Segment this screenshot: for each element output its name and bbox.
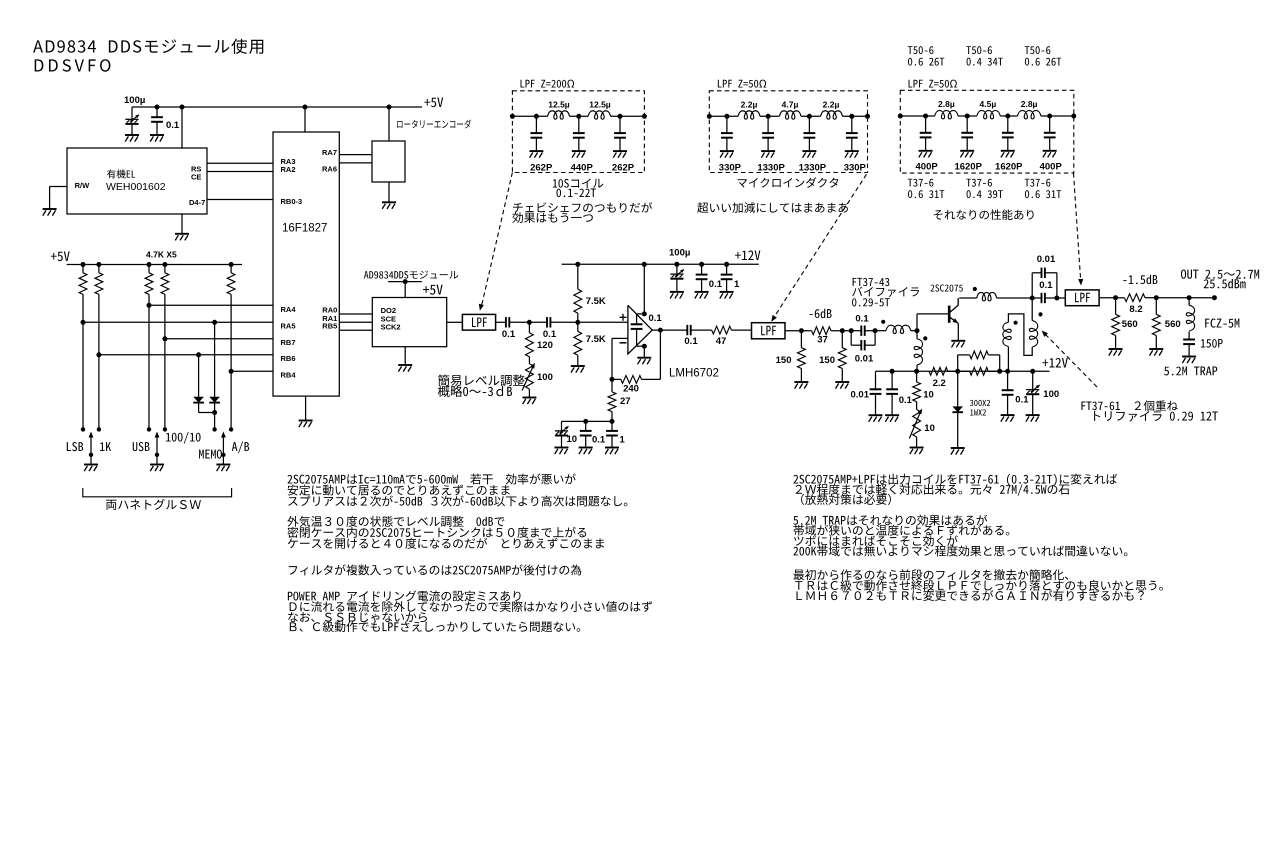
ground below R14 <box>835 381 849 383</box>
svg-text:RA5: RA5 <box>281 322 296 331</box>
capacitor C19 100u electrolytic <box>1030 369 1035 374</box>
transistor Q1 emitter <box>949 317 958 324</box>
svg-text:RB4: RB4 <box>281 371 297 380</box>
label 1K <box>100 442 111 451</box>
capacitor C8 10u electrolytic <box>561 421 563 431</box>
resistor R16 2.2 <box>929 367 948 375</box>
+5V label (switch rail) <box>51 251 70 261</box>
op-amp U1 triangle <box>628 305 652 354</box>
capacitor C3 0.1 series <box>505 317 507 327</box>
svg-text:1620P: 1620P <box>954 162 982 173</box>
svg-text:0.1: 0.1 <box>166 120 180 131</box>
capacitor 400P (filter3) <box>1047 114 1052 119</box>
wire RA7-encoder <box>339 154 372 156</box>
op-amp bypass cap 0.1 <box>636 314 638 324</box>
dashed arrow filter3 to LPF3 <box>1074 173 1081 281</box>
svg-text:RA6: RA6 <box>322 165 337 174</box>
ground below C1 <box>125 134 139 136</box>
label 25.5dBm <box>1204 279 1246 289</box>
inductor L5 2.2u <box>821 111 843 119</box>
resistor R6 120 <box>528 322 530 333</box>
label 簡易レベル調整 <box>438 374 525 386</box>
svg-text:4.7µ: 4.7µ <box>782 100 799 110</box>
node collector out <box>1030 296 1035 301</box>
wire RA0-DO2 <box>339 313 372 315</box>
comment text block left <box>287 474 575 485</box>
label 超いい加減にしてはまあまあ <box>697 202 848 213</box>
wire module out <box>447 321 463 323</box>
label バイファイラ <box>852 287 919 297</box>
variable resistor VR1 100 <box>528 357 530 364</box>
svg-text:262P: 262P <box>612 163 635 174</box>
capacitor C14 0.01 bypass loop <box>1031 273 1033 298</box>
inductor L2 12.5u <box>588 111 611 119</box>
rotary encoder label <box>397 120 471 129</box>
svg-text:0.01: 0.01 <box>851 390 870 401</box>
+12V rail (opamp) <box>562 263 759 265</box>
ground below C6 <box>695 291 709 293</box>
wire col5 down <box>230 294 232 429</box>
label A/B <box>232 441 249 453</box>
wire col2 down <box>98 294 100 429</box>
resistor R12 150 shunt <box>800 331 802 348</box>
label 2SC2075 <box>930 284 962 291</box>
+12V rail (PA) <box>876 370 1050 372</box>
svg-text:RB5: RB5 <box>322 322 337 331</box>
resistor R10 27 <box>611 379 613 392</box>
label 0.1-22T <box>557 189 596 198</box>
wire T1 to base <box>916 314 918 331</box>
svg-text:12.5µ: 12.5µ <box>589 100 611 110</box>
label トリファイラ 0.29 12T <box>1094 411 1218 422</box>
inductor L3 2.2u <box>738 111 760 119</box>
svg-text:16F1827: 16F1827 <box>282 223 327 235</box>
capacitor C12 0.1 series <box>851 330 861 332</box>
svg-text:150: 150 <box>819 355 835 366</box>
capacitor C4 0.1 series <box>529 321 547 323</box>
wire CE-RA2 <box>207 171 273 173</box>
ground below PIC <box>299 420 313 422</box>
transformer T1 secondary <box>916 331 918 339</box>
transformer T1 primary <box>875 330 886 332</box>
label FT37-61 2個重ね <box>1081 400 1177 411</box>
DDS module U3 box <box>372 298 446 347</box>
+5V stub for module <box>388 281 422 283</box>
svg-text:RB6: RB6 <box>281 354 296 363</box>
svg-text:0.1: 0.1 <box>1015 395 1029 406</box>
svg-text:100: 100 <box>537 372 553 383</box>
svg-text:1620P: 1620P <box>995 162 1023 173</box>
diode D2 <box>214 322 216 397</box>
svg-text:560: 560 <box>1165 319 1181 330</box>
capacitor 400P (filter3) <box>923 114 928 119</box>
svg-text:2.2: 2.2 <box>933 378 946 389</box>
svg-text:37: 37 <box>817 335 828 346</box>
+5V rail (switches) <box>67 264 242 266</box>
node bias T1 <box>914 369 919 374</box>
svg-text:120: 120 <box>537 340 553 351</box>
resistor R5 4.7K <box>229 262 234 267</box>
label -6dB <box>809 309 831 318</box>
label T37-6 col3 <box>1025 179 1051 187</box>
label USB <box>133 442 150 451</box>
svg-text:4.7K X5: 4.7K X5 <box>146 250 177 260</box>
svg-text:7.5K: 7.5K <box>586 296 606 307</box>
wire emitter cap bus <box>562 420 613 422</box>
ground below module <box>398 364 412 366</box>
ground below R8 <box>571 365 585 367</box>
label 両ハネトグルSW <box>106 499 201 510</box>
capacitor C1 100u electrolytic <box>131 107 133 119</box>
wire encoder to ground <box>388 182 390 202</box>
label T50-6 col3 <box>1025 46 1051 54</box>
label T37-6 col2 <box>966 179 992 187</box>
ground below R19 <box>1109 348 1123 350</box>
wire rail to LCD top <box>181 107 183 148</box>
node diode <box>955 369 960 374</box>
capacitor 1620P (filter3) <box>1005 114 1010 119</box>
ground below C7 <box>720 291 734 293</box>
capacitor C16 0.01 <box>875 371 877 389</box>
node after 8.2 <box>1154 295 1159 300</box>
wire col4 down <box>164 294 166 429</box>
ground below C9 <box>579 447 593 449</box>
LPF3 box <box>1065 290 1099 306</box>
wire LCD bottom to ground <box>181 214 183 234</box>
label AD9834DDSモジュール <box>364 271 458 279</box>
output terminal <box>1212 295 1217 300</box>
svg-text:WEH001602: WEH001602 <box>106 181 166 193</box>
dashed arrow filter2 to LPF2 <box>773 174 866 318</box>
wire RA6-encoder <box>339 162 372 164</box>
svg-text:CE: CE <box>191 172 201 181</box>
resistor R13 37 <box>812 327 831 335</box>
label LPF Z=50Ω (box2) <box>718 80 766 88</box>
wire LPF2 out <box>785 330 812 332</box>
svg-text:100µ: 100µ <box>124 95 145 106</box>
diode D3 <box>957 371 959 406</box>
ground below C10 <box>605 447 619 449</box>
svg-text:1330P: 1330P <box>757 163 785 174</box>
ground below opamp <box>637 357 651 359</box>
capacitor 1330P (filter2) <box>807 114 812 119</box>
resistor R11 47 <box>691 329 712 331</box>
resistor R3 4.7K <box>147 262 152 267</box>
label FT37-43 <box>853 278 890 286</box>
svg-text:4.5µ: 4.5µ <box>980 99 997 109</box>
ground at LCD R/W <box>43 208 57 210</box>
svg-text:1330P: 1330P <box>799 163 827 174</box>
node LPF3 in <box>1054 296 1059 301</box>
label T50-6 col1 <box>908 46 934 54</box>
wire collector <box>959 297 977 299</box>
svg-text:262P: 262P <box>530 163 553 174</box>
svg-text:0.1: 0.1 <box>855 314 869 325</box>
variable resistor VR2 10 <box>913 410 921 438</box>
svg-text:400P: 400P <box>1040 162 1063 173</box>
ground below R21 <box>1149 348 1163 350</box>
inductor L4 4.7u <box>779 111 801 119</box>
node rail to PIC <box>303 105 308 110</box>
node T1 <box>915 328 920 333</box>
capacitor C7 1 <box>724 262 729 267</box>
ground below C18 <box>1001 414 1015 416</box>
svg-text:RA7: RA7 <box>322 148 337 157</box>
label -1.5dB <box>1123 275 1157 284</box>
ground below C20 <box>1182 356 1196 358</box>
svg-text:10: 10 <box>924 423 935 434</box>
title text <box>33 39 263 54</box>
wire D4-7 to RB0-3 <box>207 199 273 201</box>
svg-text:100: 100 <box>1043 389 1059 400</box>
wire col1 down <box>82 294 84 429</box>
node rail to encoder <box>387 105 392 110</box>
node R18 join <box>997 369 1002 374</box>
rotary encoder J1 box <box>372 141 405 182</box>
svg-text:400P: 400P <box>916 162 939 173</box>
wire C4 to bias node <box>550 321 577 323</box>
node T2 bottom <box>1005 369 1010 374</box>
toggle switch SW1 LSB/1K <box>81 427 85 431</box>
svg-text:100µ: 100µ <box>669 248 690 259</box>
svg-text:440P: 440P <box>571 163 594 174</box>
svg-text:1: 1 <box>620 435 626 446</box>
resistor R20 8.2 <box>1124 294 1145 302</box>
filter1 wire <box>512 115 547 117</box>
wire module to ground <box>404 347 406 365</box>
ground below VR2 <box>910 447 924 449</box>
dashed arrow filter1 to LPF1 <box>482 173 513 307</box>
svg-text:RB7: RB7 <box>281 338 296 347</box>
svg-text:2.2µ: 2.2µ <box>823 100 840 110</box>
LCD module X1 box <box>67 148 207 214</box>
node rail opamp supply <box>642 262 647 267</box>
wire VR1 to ground <box>528 389 530 398</box>
inductor L7 4.5u <box>977 110 1000 118</box>
svg-text:0.01: 0.01 <box>1037 254 1056 265</box>
dashed arrow FT37-61 label to transformer <box>1044 333 1097 387</box>
svg-text:RA4: RA4 <box>281 305 297 314</box>
resistor R2 4.7K <box>96 262 101 267</box>
wire RB7 line <box>162 336 167 341</box>
wire to trap <box>1156 297 1214 299</box>
svg-text:8.2: 8.2 <box>1129 304 1142 315</box>
resistor R9 240 feedback <box>642 378 661 380</box>
svg-text:0.1: 0.1 <box>543 329 557 340</box>
label MEMO <box>199 450 222 459</box>
ground below LCD <box>175 233 189 235</box>
svg-text:330P: 330P <box>719 163 742 174</box>
capacitor C9 0.1 <box>583 419 588 424</box>
filter box 2 dashed <box>709 91 867 173</box>
label それなりの性能あり <box>934 209 1034 220</box>
wire emitter to ground <box>957 323 959 340</box>
capacitor C17 0.1 <box>890 369 895 374</box>
resistor R21 560 shunt <box>1155 298 1157 315</box>
resistor R14 150 shunt <box>841 331 843 348</box>
LPF1 box <box>462 314 495 330</box>
wire RB4 line <box>229 369 234 374</box>
svg-text:RA2: RA2 <box>281 165 296 174</box>
ground below Q1 emitter <box>951 340 965 342</box>
svg-text:0.1: 0.1 <box>502 329 516 340</box>
label 100/10 <box>166 432 201 444</box>
svg-text:D4-7: D4-7 <box>189 198 205 207</box>
wire RB6 line <box>96 352 101 357</box>
svg-text:7.5K: 7.5K <box>586 334 606 345</box>
capacitor C2 0.1 <box>156 107 158 117</box>
svg-text:47: 47 <box>716 336 727 347</box>
wire LCD R/W to ground <box>50 186 67 188</box>
wire RS-RA3 <box>207 162 273 164</box>
svg-text:RB0-3: RB0-3 <box>281 197 303 206</box>
wire D1-D2 join <box>199 412 215 414</box>
svg-text:2.2µ: 2.2µ <box>741 100 758 110</box>
capacitor C18 0.1 <box>1007 371 1009 390</box>
resistor R17 300 lower <box>958 370 970 372</box>
node rail to LCD <box>180 105 185 110</box>
capacitor 262P (filter1) <box>618 114 623 119</box>
comment text block right <box>793 474 1117 486</box>
toggle switch SW2 USB/100-10 <box>147 427 151 431</box>
ground below C2 <box>150 134 164 136</box>
wire opamp Vneg to ground <box>643 346 645 358</box>
capacitor C20 150P <box>1188 332 1190 340</box>
resistor R8 7.5K lower <box>577 322 579 331</box>
node C12/C13 right <box>873 328 878 333</box>
filter box 3 dashed <box>900 90 1074 173</box>
capacitor C10 1 <box>610 419 615 424</box>
inductor L8 2.8u <box>1018 110 1041 118</box>
svg-text:10: 10 <box>923 390 934 401</box>
capacitor C5 100u electrolytic <box>674 262 679 267</box>
svg-text:27: 27 <box>620 396 631 407</box>
capacitor 1620P (filter3) <box>965 114 970 119</box>
LPF2 box <box>752 323 786 339</box>
label T50-6 col2 <box>966 46 992 54</box>
svg-text:560: 560 <box>1122 319 1138 330</box>
transformer T2 secondary left <box>1003 322 1011 346</box>
svg-text:240: 240 <box>623 384 639 395</box>
transistor Q1 collector <box>949 298 958 313</box>
wire RA4 line <box>147 303 152 308</box>
label LSB <box>67 442 83 451</box>
wire PIC bottom to ground <box>305 396 307 420</box>
wire LPF1 to C3 <box>496 321 506 323</box>
transformer T2 secondary right <box>1031 298 1033 321</box>
inductor L6 2.8u <box>935 110 958 118</box>
resistor R18 300 upper <box>957 355 959 371</box>
inductor T2 feed winding <box>977 292 997 300</box>
filter box 1 dashed <box>512 91 644 173</box>
svg-text:0.1: 0.1 <box>899 395 913 406</box>
capacitor C11 0.1 series <box>686 325 688 335</box>
node on rail for C2 <box>155 105 160 110</box>
svg-text:10: 10 <box>567 434 578 445</box>
svg-text:0.1: 0.1 <box>1039 280 1053 291</box>
wire LPF3 out <box>1099 297 1124 299</box>
label 1WX2 <box>970 409 986 415</box>
PIC U2 box <box>273 132 339 396</box>
label 300X2 <box>970 400 990 406</box>
+5V power rail (top) <box>132 106 422 108</box>
label チェビシェフのつもりだが <box>513 202 652 212</box>
transistor Q1 base bar <box>948 306 951 323</box>
capacitor C13 0.01 parallel <box>850 331 852 346</box>
svg-text:150: 150 <box>776 355 792 366</box>
capacitor 330P (filter2) <box>724 114 729 119</box>
ground below D3 <box>951 447 965 449</box>
wire RA1-SCE <box>339 321 372 323</box>
svg-text:0.1: 0.1 <box>649 313 663 324</box>
svg-text:0.01: 0.01 <box>855 354 874 365</box>
svg-text:R/W: R/W <box>75 181 91 190</box>
op-amp - input sign <box>620 342 627 344</box>
svg-text:1: 1 <box>734 279 740 290</box>
wire to LPF3 <box>1057 297 1065 299</box>
ground below C16 <box>869 414 883 416</box>
wire col3 down <box>148 294 150 429</box>
ground below R12 <box>794 381 808 383</box>
node pad out <box>849 328 854 333</box>
svg-text:SCK2: SCK2 <box>381 322 401 331</box>
op-amp + input sign <box>620 316 627 318</box>
inductor L9 FCZ-5M <box>1188 298 1190 306</box>
wire rail to PIC top <box>304 107 306 132</box>
label 10Sコイル <box>553 178 603 187</box>
bracket 両ハネトグルSW <box>83 488 232 497</box>
label マイクロインダクタ <box>737 177 838 188</box>
resistor R4 4.7K <box>162 262 167 267</box>
capacitor 330P (filter2) <box>849 114 854 119</box>
wire rail to encoder top <box>388 107 390 141</box>
wire feedback vertical <box>659 330 661 379</box>
filter2 wire <box>709 115 738 117</box>
toggle switch SW3 MEMO/A-B <box>212 427 216 431</box>
diode D1 <box>198 355 200 397</box>
resistor R19 560 shunt <box>1115 298 1117 315</box>
ground below C19 <box>1026 414 1040 416</box>
svg-text:2.8µ: 2.8µ <box>1021 99 1038 109</box>
filter3 wire <box>900 115 934 117</box>
ground below VR1 <box>522 397 536 399</box>
capacitor C15 0.1 series <box>1032 297 1041 299</box>
ground below encoder <box>382 201 396 203</box>
capacitor C6 0.1 <box>699 262 704 267</box>
wire C3 to node <box>509 321 529 323</box>
resistor R15 10 <box>916 371 918 382</box>
label LPF Z=200Ω <box>521 80 575 88</box>
wire RB5-SCK2 <box>339 329 372 331</box>
label 5.2M TRAP <box>1164 366 1217 375</box>
svg-text:0.1: 0.1 <box>592 435 606 446</box>
capacitor 1330P (filter2) <box>766 114 771 119</box>
svg-text:2.8µ: 2.8µ <box>938 99 955 109</box>
ground below C17 <box>885 414 899 416</box>
resistor R7 7.5K upper <box>577 313 579 322</box>
label LPF Z=50Ω (box3) <box>909 80 957 88</box>
capacitor 440P (filter1) <box>576 114 581 119</box>
svg-text:0.1: 0.1 <box>684 336 698 347</box>
svg-text:12.5µ: 12.5µ <box>548 100 570 110</box>
svg-text:LMH6702: LMH6702 <box>669 368 719 380</box>
op-amp output node <box>652 329 687 331</box>
wire RA5 line <box>81 320 86 325</box>
ground below C8 <box>555 447 569 449</box>
wire bias node to opamp <box>578 321 628 323</box>
label 概略0〜-3dB <box>438 385 512 397</box>
svg-text:0.1: 0.1 <box>709 279 723 290</box>
